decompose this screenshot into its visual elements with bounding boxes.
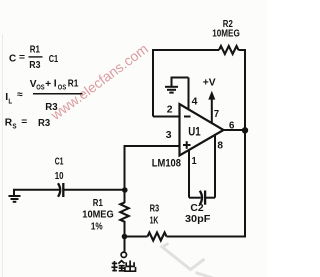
capacitor C2 [189,191,215,205]
svg-text:=: = [19,52,25,63]
wire: output from apex to node [224,129,246,131]
svg-text:U1: U1 [188,126,201,138]
svg-text:C: C [9,53,17,65]
svg-text:R1: R1 [68,77,79,89]
junction output node [242,127,248,133]
wire: inverting input (pin 2) [153,116,180,118]
svg-text:1K: 1K [150,216,159,227]
svg-text:6: 6 [229,120,235,131]
svg-text:=: = [21,117,27,128]
svg-text:1%: 1% [91,222,103,233]
svg-text:+V: +V [203,78,216,89]
ground (input) [9,190,60,202]
svg-text:S: S [12,121,16,130]
svg-text:1: 1 [192,156,197,167]
+V supply arrow (pin 7) [208,91,215,123]
watermark www.elecfans.com [47,40,151,123]
svg-text:R3: R3 [29,59,40,71]
svg-text:2: 2 [167,104,173,115]
svg-text:C2: C2 [190,203,204,214]
svg-text:8: 8 [217,140,223,151]
capacitor C1 [58,183,125,197]
label 输出 (output) [111,261,135,272]
wire: pin 3 non-inverting input [125,146,180,190]
svg-text:R1: R1 [30,43,40,55]
wire: node B to output terminal [124,237,126,252]
svg-text:www.elecfans.com: www.elecfans.com [47,40,151,123]
svg-text:L: L [8,96,12,105]
op-amp U1 triangle [180,104,224,156]
svg-text:R3: R3 [150,204,160,215]
svg-text:LM108: LM108 [152,157,181,169]
watermark chevron bottom right [162,244,214,277]
resistor R2 [219,46,238,54]
svg-text:I: I [54,77,57,89]
svg-text:R3: R3 [38,117,50,129]
ground (guard) near pin 4 [165,78,189,93]
wire: top rail right + right rail down to output node [239,50,246,131]
svg-text:4: 4 [192,96,198,107]
svg-text:C1: C1 [55,156,64,167]
wire: R1 to node B [124,223,126,237]
formula 2: IL = (Vos+IosR1)/R3 [5,77,82,113]
resistor R3 [148,233,167,241]
formula 1: C = R1/R3 C1 [9,43,58,71]
wire: node A to R1 [124,190,126,204]
junction node A (C1/R1/pin3) [122,187,128,193]
wire: feedback top rail left segment [153,50,219,117]
wire: bottom rail to output junction [125,236,148,238]
output terminal circle [121,252,126,257]
svg-text:10MEG: 10MEG [212,28,240,39]
svg-text:OS: OS [58,85,67,92]
wire: pin 8 down [214,135,216,198]
svg-text:≈: ≈ [17,90,23,101]
wire: pin 4 [188,78,190,110]
minus sign inside U1 [184,116,191,118]
svg-text:30pF: 30pF [185,214,210,225]
formula 3: Rs = R3 [5,117,51,131]
wire: pin 1 down [188,150,190,198]
plus sign inside U1 [183,141,191,149]
svg-text:C1: C1 [49,53,59,65]
resistor R1 [120,203,128,223]
svg-text:10: 10 [55,171,64,182]
svg-text:R1: R1 [93,198,103,209]
junction node B (output) [122,234,128,240]
svg-text:3: 3 [166,130,172,141]
svg-text:OS: OS [36,85,45,92]
wire: right rail lower + bottom rail [167,131,246,237]
svg-text:R3: R3 [45,101,58,113]
page edge line left [2,34,4,277]
svg-text:10MEG: 10MEG [82,209,114,220]
svg-text:7: 7 [214,109,220,120]
svg-text:+: + [45,79,51,90]
